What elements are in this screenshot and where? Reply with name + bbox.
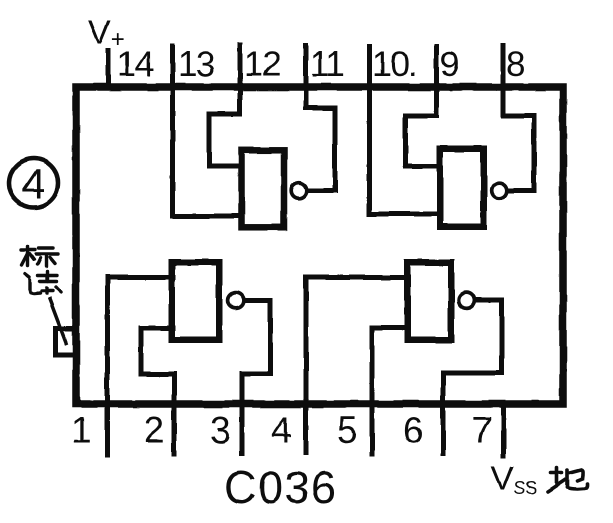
gate U2 (top-right NAND) <box>440 149 484 227</box>
svg-text:1: 1 <box>71 410 92 451</box>
pin 4 <box>306 278 405 453</box>
svg-text:13: 13 <box>178 45 214 84</box>
pin 7 (Vss) <box>501 404 506 456</box>
gate U4 (bottom-right NAND) <box>407 262 451 340</box>
pin 2 <box>141 328 174 454</box>
svg-text:12: 12 <box>244 45 280 84</box>
svg-text:14: 14 <box>117 45 154 84</box>
gate U1 (top-left NAND) <box>242 150 285 227</box>
pin 9 <box>406 46 439 166</box>
label zhi (Chinese: mark) <box>25 272 61 295</box>
pin 13 <box>173 46 240 216</box>
label di (Chinese: ground) <box>548 468 587 492</box>
svg-text:8: 8 <box>506 45 525 84</box>
svg-text:4: 4 <box>271 410 292 451</box>
gate U2 output bubble <box>491 183 507 199</box>
pin 10 <box>370 46 439 214</box>
svg-text:2: 2 <box>144 410 165 451</box>
index notch mark <box>56 329 78 356</box>
gate U3 output bubble <box>228 293 244 309</box>
pin 12 <box>209 45 240 166</box>
pin 5 <box>372 328 405 455</box>
svg-text:10.: 10. <box>372 45 416 84</box>
circled figure number 4 <box>9 159 58 208</box>
IC package outline <box>76 87 563 404</box>
pin 8 <box>503 46 534 191</box>
svg-text:7: 7 <box>472 410 493 451</box>
svg-text:5: 5 <box>337 410 358 451</box>
gate U4 output bubble <box>459 293 475 309</box>
pin 3 <box>242 301 271 455</box>
pin 6 <box>443 301 502 454</box>
svg-text:4: 4 <box>22 160 45 207</box>
svg-text:VSS: VSS <box>491 460 537 498</box>
svg-text:3: 3 <box>210 410 231 451</box>
svg-text:C036: C036 <box>224 462 338 513</box>
svg-text:11: 11 <box>310 45 343 84</box>
gate U3 (bottom-left NAND) <box>172 262 220 340</box>
gate U1 output bubble <box>291 183 307 199</box>
pin 11 <box>306 46 335 191</box>
leader line to index notch <box>50 299 67 343</box>
pin 14 (V+) <box>106 51 111 85</box>
svg-text:9: 9 <box>440 45 459 84</box>
label biao (Chinese: mark) <box>22 246 59 267</box>
svg-text:6: 6 <box>403 410 424 451</box>
pin 1 <box>108 278 174 456</box>
